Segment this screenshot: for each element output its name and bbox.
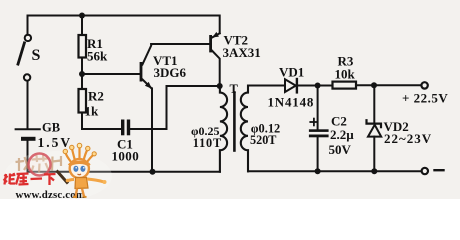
switch S <box>18 35 41 81</box>
terminal +22.5V <box>402 82 448 105</box>
battery GB 1.5V <box>16 121 73 151</box>
capacitor C1 1000 <box>112 120 140 164</box>
node VD1/C2 junction <box>315 83 321 89</box>
transistor VT2 3AX31 <box>209 32 261 86</box>
wire bottom rail right <box>248 170 422 172</box>
resistor R3 10k <box>333 54 422 89</box>
wire VT1 collector to VT2 base <box>151 43 209 45</box>
wire bottom rail left <box>28 171 221 173</box>
terminal minus <box>422 168 444 174</box>
node top-rail/R1 junction <box>79 13 85 19</box>
watermark faint text zhao-xin-pian <box>16 155 62 173</box>
wire secondary top to diode <box>248 85 285 87</box>
node C2/bottom-rail junction <box>315 168 321 174</box>
wire C1 to feedback node <box>130 86 220 129</box>
wire top rail <box>28 16 220 35</box>
node VD2/bottom-rail junction <box>371 168 377 174</box>
transformer T secondary winding 0.12 520T <box>241 86 280 172</box>
wire VT1 emitter down <box>151 88 153 171</box>
transformer core <box>230 82 239 151</box>
diode VD1 1N4148 <box>268 65 333 110</box>
watermark red text wei-ku-yi-xia <box>4 173 56 185</box>
watermark halo <box>4 151 112 201</box>
wire battery to bottom rail <box>27 141 29 172</box>
wire switch to battery <box>27 81 29 128</box>
watermark red circle <box>29 154 51 176</box>
resistor R1 56k <box>79 16 109 75</box>
zener diode VD2 22~23V <box>367 85 433 171</box>
node VT2-collector/primary junction <box>217 83 223 89</box>
watermark url www.dzsc.com <box>16 189 86 201</box>
resistor R2 1k <box>79 74 122 129</box>
transistor VT1 3DG6 <box>84 44 187 89</box>
node emitter/bottom-rail junction <box>150 169 156 175</box>
node R3/VD2 junction <box>371 82 377 88</box>
transformer T primary winding 0.25 110T <box>191 86 227 172</box>
node R1/R2/VT1-base junction <box>79 71 85 77</box>
capacitor C2 2.2u 50V <box>309 86 354 172</box>
watermark mascot <box>57 143 107 197</box>
